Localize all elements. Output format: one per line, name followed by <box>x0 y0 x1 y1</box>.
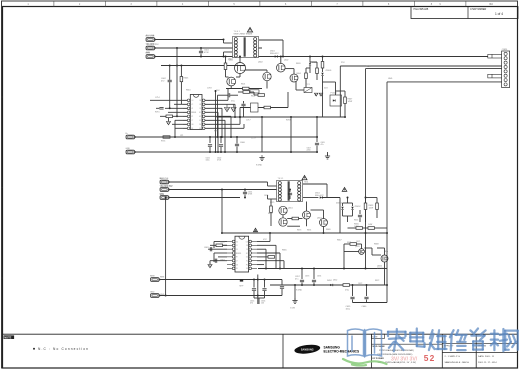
capacitor C654 <box>214 259 216 263</box>
svg-text:VF: VF <box>191 108 193 110</box>
wire T601 left leg <box>223 40 225 44</box>
wire Q603 source <box>266 81 268 89</box>
wire CN601-2 bus <box>155 47 262 49</box>
svg-text:BRN: BRN <box>160 194 165 196</box>
svg-text:VC: VC <box>246 260 248 262</box>
IC601 pins left <box>187 99 190 102</box>
svg-text:YEL/GRN P5V: YEL/GRN P5V <box>160 186 173 188</box>
svg-text:C675: C675 <box>264 195 268 197</box>
watermark green swoosh <box>343 359 387 366</box>
svg-text:S.GND: S.GND <box>296 290 303 292</box>
svg-text:R655: R655 <box>354 220 358 222</box>
svg-text:CN851: CN851 <box>502 49 508 51</box>
watermark character wang <box>505 331 518 350</box>
svg-text:R605: R605 <box>184 78 190 80</box>
connector CN651 pin1 stub <box>160 180 169 184</box>
svg-text:1/4W: 1/4W <box>354 226 359 228</box>
wire Q656 top <box>384 248 386 255</box>
svg-text:R665: R665 <box>282 250 287 252</box>
watermark character xiu <box>450 330 467 350</box>
resistor R653 <box>364 203 367 210</box>
svg-text:HGA 99511/B: HGA 99511/B <box>414 8 429 11</box>
svg-text:C660: C660 <box>362 306 368 308</box>
svg-text:ZD2: ZD2 <box>216 90 220 92</box>
gate bus y88.5 <box>226 88 262 90</box>
resistor R604 <box>321 62 324 69</box>
mosfet Q651 <box>303 211 311 219</box>
transformer T601 <box>233 37 259 58</box>
wire mid bus y117 <box>217 116 346 118</box>
resistor R605 <box>180 66 182 77</box>
resistor R624 <box>305 73 308 79</box>
capacitor C658 <box>313 269 315 280</box>
wire PC601 <box>296 89 304 91</box>
resistor R659 <box>343 284 350 287</box>
svg-text:473K: 473K <box>204 52 209 54</box>
svg-text:3: 3 <box>130 3 132 6</box>
transistor Q603 <box>263 72 271 80</box>
diode D601 on main bus <box>275 55 278 57</box>
svg-text:CM: CM <box>246 241 248 243</box>
svg-text:471K: 471K <box>217 160 222 162</box>
svg-text:SAMSUNG: SAMSUNG <box>301 348 314 351</box>
svg-text:R669: R669 <box>326 229 331 231</box>
svg-text:R602: R602 <box>251 96 255 98</box>
svg-text:R620: R620 <box>296 63 301 65</box>
connector CN851 crimp stub pin6 <box>488 74 502 78</box>
svg-text:GND: GND <box>388 78 393 80</box>
capacitor C603 <box>159 107 163 109</box>
svg-text:8: 8 <box>431 3 433 6</box>
wire CN651-2 <box>169 189 290 191</box>
svg-text:9: 9 <box>439 3 441 6</box>
svg-text:6: 6 <box>285 3 287 6</box>
junction T601 right return <box>282 56 284 58</box>
svg-text:8: 8 <box>388 3 390 6</box>
wire IC601 pin13 row <box>168 111 187 113</box>
junction T601 left leg <box>223 39 225 41</box>
wire IC601 pin12 row <box>160 115 187 117</box>
watermark character dian <box>410 329 424 347</box>
wire CN601-3 long bus to CN851 <box>155 56 488 58</box>
watermark open book icon <box>348 329 382 357</box>
svg-text:BLU LIVE: BLU LIVE <box>146 35 155 37</box>
svg-text:RT: RT <box>236 257 238 259</box>
wire Q651 source down <box>306 219 308 226</box>
svg-text:4: 4 <box>182 3 184 6</box>
connector CN851 body <box>502 51 510 88</box>
IC651 pins right <box>249 240 252 243</box>
svg-text:100u: 100u <box>206 160 210 162</box>
wire IC601 pin10 row <box>172 123 187 125</box>
capacitor C651 <box>244 190 246 192</box>
svg-text:PC1: PC1 <box>306 84 310 86</box>
mosfet Q601 <box>235 63 246 74</box>
capacitor C652 <box>359 210 361 214</box>
wire IC bottom drop <box>257 280 259 305</box>
wire Q653-Q654 <box>282 215 284 218</box>
svg-text:P12V: P12V <box>366 66 371 68</box>
Samsung logo ellipse <box>294 343 321 355</box>
svg-text:10: 10 <box>490 3 493 6</box>
connector CN601 pin1 stub <box>146 38 155 42</box>
svg-text:Q652: Q652 <box>317 218 322 220</box>
svg-text:C663: C663 <box>204 247 209 249</box>
svg-text:GN: GN <box>191 124 193 126</box>
svg-text:Q602: Q602 <box>284 60 288 62</box>
capacitor C601 <box>200 48 202 51</box>
svg-text:D652: D652 <box>333 280 337 282</box>
svg-text:RC: RC <box>246 253 248 255</box>
mosfet Q652 <box>320 219 328 227</box>
wire IC651 pin rows left <box>214 241 227 243</box>
zener ZD601 <box>322 68 324 72</box>
svg-text:VC: VC <box>191 104 193 106</box>
svg-text:R610: R610 <box>186 90 191 92</box>
svg-text:2001. 11. 17 - 0114: 2001. 11. 17 - 0114 <box>478 362 497 364</box>
svg-text:GN: GN <box>236 264 238 266</box>
svg-text:VC: VC <box>199 120 201 122</box>
zener ZD652 <box>352 203 354 206</box>
svg-text:2: 2 <box>79 3 81 6</box>
svg-text:G 1W: G 1W <box>290 308 295 310</box>
zener ZD651 <box>342 203 344 206</box>
connector CN851 pins <box>504 52 507 55</box>
svg-text:FML-G22: FML-G22 <box>315 195 324 197</box>
svg-text:2 - 1 SMPL.P G: 2 - 1 SMPL.P G <box>445 356 461 358</box>
svg-text:C718: C718 <box>207 88 212 90</box>
suppressor hatched triangles near IC601 <box>224 108 229 112</box>
connector CN651 pin3 stub <box>160 196 169 200</box>
junction C651 <box>244 189 246 191</box>
svg-text:REM: REM <box>160 277 165 279</box>
svg-text:C672: C672 <box>358 283 362 285</box>
long wire to CN851 pin4 <box>366 68 503 70</box>
svg-text:REM: REM <box>150 276 155 278</box>
connector CN601 pin3 stub <box>146 55 155 59</box>
svg-text:Q604: Q604 <box>296 73 301 75</box>
capacitor C611 <box>227 93 229 97</box>
capacitor C602 <box>169 66 171 80</box>
zener pair hatched <box>314 93 318 96</box>
svg-text:NOTE: NOTE <box>4 336 11 340</box>
wire Q655 circuit <box>344 251 359 253</box>
stub CN602 pin2 <box>126 150 135 154</box>
wire Q651 drain <box>306 202 308 212</box>
title block cell divider left <box>282 334 284 368</box>
transistor Q604 <box>290 74 298 82</box>
IC601 pins right <box>202 99 205 102</box>
wire IC601 pin11 row <box>175 119 187 121</box>
junction y137 x317 <box>316 136 318 138</box>
wire bus y233 <box>222 232 387 234</box>
svg-text:MTP: MTP <box>240 286 245 288</box>
svg-text:FML-G12: FML-G12 <box>270 53 279 55</box>
resistor R651 <box>292 217 299 220</box>
svg-text:103: 103 <box>261 303 264 305</box>
transistor Q654 <box>279 218 287 226</box>
resistor R601 <box>243 87 250 90</box>
title block cell divider mid <box>371 334 373 368</box>
svg-text:PC601: PC601 <box>331 93 338 95</box>
capacitor C657 <box>301 269 303 280</box>
wire mid bus y152 <box>135 151 318 153</box>
svg-text:DATE: 2001 - 11: DATE: 2001 - 11 <box>478 355 495 358</box>
svg-text:PG: PG <box>199 124 201 126</box>
warning triangle B1 <box>302 176 307 180</box>
transistor Q653 <box>279 206 287 214</box>
svg-text:SS: SS <box>199 128 201 130</box>
svg-text:T 6 5 1: T 6 5 1 <box>278 178 284 180</box>
svg-text:52: 52 <box>424 353 436 363</box>
svg-text:N.C : No Connection: N.C : No Connection <box>38 347 89 351</box>
svg-text:470u: 470u <box>345 290 349 292</box>
svg-text:DP POWER: DP POWER <box>373 358 385 360</box>
mid bus y268.5 <box>258 268 387 270</box>
capacitor C612 <box>243 101 245 104</box>
wire Q652 source down <box>323 227 325 234</box>
capacitor C656 <box>264 280 266 288</box>
resistor R622 <box>258 94 265 97</box>
chassis ground IC601 <box>168 118 170 122</box>
resistor R623 <box>264 106 271 109</box>
zone tick marks left <box>1 96 2 98</box>
svg-text:R716: R716 <box>161 141 165 143</box>
title block right row line 2 <box>442 352 517 354</box>
svg-text:R662: R662 <box>268 213 273 215</box>
mosfet Q602 <box>277 63 286 72</box>
resistor R603 <box>225 57 227 64</box>
svg-text:C719: C719 <box>251 138 256 140</box>
diode D651 <box>320 196 323 198</box>
svg-text:Q602: Q602 <box>258 62 263 64</box>
svg-text:SS: SS <box>246 268 248 270</box>
title block DATE cell <box>372 334 385 338</box>
wire R604 top <box>322 57 324 62</box>
svg-text:1/4W: 1/4W <box>368 224 372 226</box>
svg-text:R673: R673 <box>297 230 301 232</box>
vertical bus pair right of IC601 <box>215 91 217 152</box>
svg-text:ELECTRO-MECHANICS: ELECTRO-MECHANICS <box>324 350 360 354</box>
wire right cluster drop <box>322 82 324 117</box>
svg-text:IC651: IC651 <box>237 253 242 255</box>
svg-text:47u: 47u <box>321 144 324 146</box>
svg-text:472: 472 <box>250 303 253 305</box>
capacitor C655 <box>253 280 255 288</box>
title block col divider right1 <box>441 334 443 368</box>
stub CN652 pin1 <box>151 278 160 282</box>
svg-text:R674: R674 <box>307 230 311 232</box>
note area divider line <box>2 333 517 335</box>
wire x177 down to IC601 pin row <box>176 48 178 116</box>
svg-text:RF: RF <box>236 268 238 270</box>
svg-text:D652: D652 <box>327 280 333 282</box>
junction bus2 x177 <box>176 47 178 49</box>
svg-text:CS: CS <box>246 249 248 251</box>
zone tick marks top <box>53 1 55 7</box>
long vertical bus x365 <box>365 69 367 269</box>
IC651 pins left <box>232 240 235 243</box>
wire opto to bus corner <box>335 82 337 95</box>
svg-text:3V/ 3V/ 3V/: 3V/ 3V/ 3V/ <box>391 357 418 363</box>
wire IC601 pin14 row <box>165 107 187 109</box>
svg-text:ZD3: ZD3 <box>324 88 328 90</box>
gate drive bus y65.5 <box>161 65 245 67</box>
wire CN652-1 <box>159 279 258 281</box>
wire T651 right top <box>303 183 327 185</box>
resistor R657 <box>216 244 223 247</box>
svg-text:BRN: BRN <box>146 52 151 54</box>
watermark character wei <box>429 330 447 350</box>
long wire to CN851 pin3 <box>340 65 502 67</box>
junction CN601-2/C601 <box>200 47 202 49</box>
svg-text:ZD651: ZD651 <box>336 203 343 205</box>
diode D602 <box>309 57 311 63</box>
svg-text:C717: C717 <box>246 120 251 122</box>
warning triangle A <box>247 28 252 32</box>
svg-text:ZD601: ZD601 <box>326 70 333 72</box>
svg-text:GND: GND <box>126 148 131 150</box>
svg-text:IC601: IC601 <box>192 112 197 114</box>
capacitor C661 input <box>289 190 291 193</box>
svg-text:SAMSUNG ELE - MECH.: SAMSUNG ELE - MECH. <box>445 361 470 364</box>
svg-text:R716: R716 <box>214 131 219 133</box>
svg-text:7: 7 <box>336 3 338 6</box>
svg-text:Q601: Q601 <box>228 59 233 61</box>
warning triangle above IC651 <box>254 228 258 231</box>
svg-text:R715: R715 <box>155 112 160 114</box>
capacitor C613 box <box>251 103 259 112</box>
svg-text:BLU: BLU <box>160 178 164 180</box>
wire CN651-1 drop to T651 <box>267 182 269 186</box>
IC651 controller <box>235 236 249 272</box>
svg-text:100u: 100u <box>346 308 350 310</box>
svg-text:S.GND: S.GND <box>256 165 263 167</box>
resistor R625 <box>316 68 319 74</box>
svg-text:1/2W: 1/2W <box>348 101 353 103</box>
watermark character jia <box>388 329 406 351</box>
svg-text:VF: VF <box>236 249 238 251</box>
title block col divider right2 <box>475 334 477 368</box>
svg-text:1/2W: 1/2W <box>369 207 374 209</box>
transformer T651 <box>277 181 303 202</box>
svg-text:47u: 47u <box>295 278 298 280</box>
wire CN651-1 <box>169 181 268 183</box>
watermark character zi <box>470 329 485 350</box>
svg-text:C714: C714 <box>155 97 160 99</box>
wire IC601 pin15 row <box>174 103 187 105</box>
resistor R602 box <box>250 90 259 93</box>
svg-text:Q655: Q655 <box>355 246 360 248</box>
vertical x291 <box>290 117 292 152</box>
svg-text:YEL/GRN: YEL/GRN <box>146 44 155 46</box>
wire mid bus y137 <box>135 136 318 138</box>
svg-text:FB: FB <box>199 104 201 106</box>
svg-text:R718: R718 <box>286 120 291 122</box>
note bullet <box>33 348 35 350</box>
svg-text:VCC: VCC <box>231 101 236 103</box>
svg-text:R668: R668 <box>374 244 379 246</box>
capacitor C607 right <box>316 117 318 142</box>
svg-text:GND: GND <box>160 294 165 296</box>
svg-text:473K: 473K <box>248 194 253 196</box>
connector CN851 crimp stub pin2 <box>488 54 502 58</box>
resistor R658 below IC <box>268 256 275 259</box>
stub CN602 pin1 <box>126 135 135 139</box>
wire bottom bus B <box>353 302 388 304</box>
resistor R606 <box>166 115 173 118</box>
ground B main <box>294 285 296 300</box>
chassis ground IC651 <box>209 261 211 265</box>
resistor R655 box <box>356 227 363 230</box>
svg-text:CT: CT <box>236 260 238 262</box>
svg-text:CHAP NMBER: CHAP NMBER <box>470 8 486 11</box>
svg-text:R672: R672 <box>375 280 379 282</box>
diode D652 <box>330 284 333 286</box>
resistor R607 <box>344 97 347 104</box>
ground mid A <box>261 155 263 158</box>
svg-text:GD: GD <box>246 257 248 259</box>
wire IC601 pin16 row <box>150 99 187 101</box>
svg-text:OU: OU <box>191 100 193 102</box>
transistor Q605 <box>227 77 236 86</box>
svg-text:C606: C606 <box>240 142 246 144</box>
resistor R652 <box>270 206 273 213</box>
wire T601 right top to snubber <box>259 39 283 41</box>
long wire to CN851 pin6 <box>387 81 502 83</box>
title block right row line 1 <box>442 342 517 344</box>
svg-text:CS: CS <box>199 108 201 110</box>
stub CN652 pin2 <box>151 294 160 298</box>
transistor Q656 <box>381 255 388 262</box>
title block row line 1 <box>372 343 443 345</box>
transistor Q655 <box>359 249 365 255</box>
wire Q602 drain <box>280 57 282 64</box>
svg-text:C664: C664 <box>220 260 225 262</box>
ground right A <box>327 152 329 156</box>
svg-text:RF: RF <box>191 128 193 130</box>
svg-text:FB: FB <box>246 245 248 247</box>
IC601 SMPS controller <box>190 95 202 130</box>
resistor R660 <box>350 243 357 246</box>
NOTE label <box>4 335 15 339</box>
vertical x262 to gnd <box>261 117 263 152</box>
wire IC651 pin rows right <box>257 241 270 243</box>
svg-text:C671: C671 <box>356 241 360 243</box>
watermark character liao <box>491 329 507 351</box>
wire T651 left return <box>267 195 269 199</box>
svg-text:R601: R601 <box>241 84 245 86</box>
svg-text:P5V: P5V <box>341 62 345 64</box>
svg-text:T651: T651 <box>304 182 308 184</box>
svg-text:PG: PG <box>246 264 248 266</box>
svg-text:RC: RC <box>199 112 201 114</box>
svg-text:R663: R663 <box>220 242 225 244</box>
warning triangle B2 <box>342 188 347 192</box>
svg-text:5: 5 <box>233 3 235 6</box>
wire CN601-1 to T601 <box>155 39 224 41</box>
svg-text:R671: R671 <box>347 242 351 244</box>
thermistor MTP mark <box>240 279 243 282</box>
wire bus B y285 <box>270 284 387 286</box>
wire diode out down <box>339 198 341 234</box>
capacitor C660 <box>366 285 368 296</box>
wire Q656 base <box>384 262 386 285</box>
header box divider <box>467 7 469 19</box>
capacitor C621 <box>209 137 211 143</box>
capacitor C657b <box>281 280 283 286</box>
svg-text:1: 1 <box>27 3 29 6</box>
